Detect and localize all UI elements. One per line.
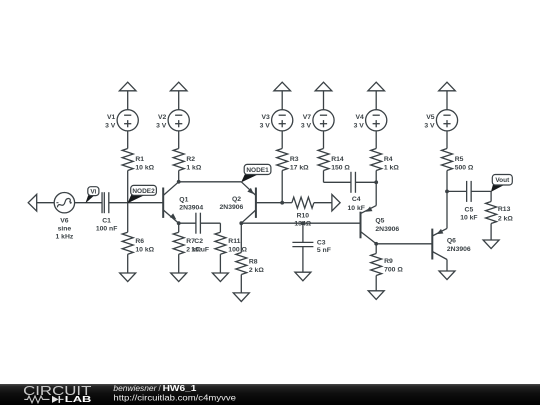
svg-text:134Ω: 134Ω (294, 221, 311, 228)
svg-text:1 kΩ: 1 kΩ (186, 164, 201, 171)
svg-text:3 V: 3 V (260, 123, 271, 130)
svg-text:Q1: Q1 (179, 196, 188, 203)
svg-text:R6: R6 (135, 238, 144, 245)
svg-text:150 Ω: 150 Ω (331, 164, 350, 171)
svg-text:5 nF: 5 nF (317, 247, 331, 254)
svg-text:V7: V7 (303, 114, 312, 121)
svg-text:700 Ω: 700 Ω (384, 267, 403, 274)
svg-text:R13: R13 (498, 206, 511, 213)
svg-text:100 Ω: 100 Ω (228, 246, 247, 253)
svg-text:R1: R1 (135, 156, 144, 163)
svg-text:R10: R10 (297, 212, 310, 219)
svg-text:2N3906: 2N3906 (220, 204, 244, 211)
svg-text:1 kΩ: 1 kΩ (384, 164, 399, 171)
svg-text:2 kΩ: 2 kΩ (249, 267, 264, 274)
svg-text:sine: sine (58, 226, 72, 233)
svg-text:1 kHz: 1 kHz (56, 234, 74, 241)
svg-text:C3: C3 (317, 240, 326, 247)
svg-text:3 V: 3 V (105, 123, 116, 130)
svg-text:V3: V3 (261, 114, 270, 121)
svg-text:Q6: Q6 (447, 237, 456, 244)
svg-text:R3: R3 (290, 156, 299, 163)
svg-text:V5: V5 (426, 114, 435, 121)
svg-text:2N3904: 2N3904 (179, 205, 203, 212)
svg-text:benwiesner: benwiesner (113, 384, 156, 393)
svg-text:3 V: 3 V (424, 123, 435, 130)
svg-text:C2: C2 (194, 238, 203, 245)
svg-text:Vout: Vout (495, 177, 510, 184)
svg-text:2N3906: 2N3906 (447, 246, 471, 253)
svg-text:R4: R4 (384, 156, 393, 163)
svg-text:10 kΩ: 10 kΩ (135, 164, 154, 171)
svg-text:R2: R2 (186, 156, 195, 163)
svg-text:V4: V4 (355, 114, 364, 121)
svg-text:3 V: 3 V (354, 123, 365, 130)
svg-text:10 kΩ: 10 kΩ (135, 246, 154, 253)
svg-text:C1: C1 (102, 218, 111, 225)
svg-text:C4: C4 (352, 196, 361, 203)
svg-text:R8: R8 (249, 258, 258, 265)
svg-text:17 kΩ: 17 kΩ (290, 164, 309, 171)
svg-text:NODE2: NODE2 (132, 188, 155, 195)
svg-text:V6: V6 (60, 218, 69, 225)
svg-text:R11: R11 (228, 238, 240, 245)
svg-text:V2: V2 (158, 114, 167, 121)
svg-text:http://circuitlab.com/c4myvve: http://circuitlab.com/c4myvve (113, 394, 236, 403)
svg-text:10 uF: 10 uF (191, 246, 209, 253)
svg-text:10 kF: 10 kF (348, 205, 365, 212)
svg-text:C5: C5 (465, 206, 474, 213)
svg-text:10 kF: 10 kF (460, 214, 477, 221)
svg-text:Q5: Q5 (375, 217, 384, 224)
svg-text:2 kΩ: 2 kΩ (498, 215, 513, 222)
svg-text:Vi: Vi (90, 189, 96, 196)
svg-text:V1: V1 (107, 114, 116, 121)
svg-text:100 nF: 100 nF (96, 226, 118, 233)
svg-text:HW6_1: HW6_1 (163, 384, 197, 393)
svg-text:NODE1: NODE1 (246, 167, 269, 174)
svg-text:3 V: 3 V (156, 123, 167, 130)
svg-text:Q2: Q2 (232, 196, 241, 203)
svg-text:LAB: LAB (65, 394, 92, 404)
svg-text:R14: R14 (331, 156, 344, 163)
svg-text:R9: R9 (384, 258, 393, 265)
svg-text:R5: R5 (455, 156, 464, 163)
svg-text:2N3906: 2N3906 (375, 226, 399, 233)
svg-text:3 V: 3 V (301, 123, 312, 130)
svg-text:500 Ω: 500 Ω (455, 164, 474, 171)
